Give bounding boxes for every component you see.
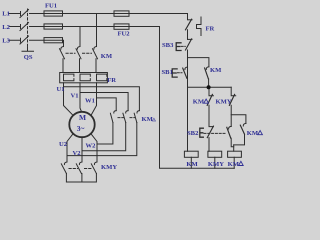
- svg-text:M: M: [79, 113, 86, 122]
- svg-text:L2: L2: [2, 24, 10, 31]
- svg-text:3~: 3~: [77, 124, 85, 133]
- svg-text:W2: W2: [86, 143, 97, 150]
- svg-text:FU2: FU2: [118, 30, 131, 37]
- svg-text:W1: W1: [85, 97, 95, 104]
- svg-text:KM: KM: [228, 161, 240, 168]
- svg-text:KMY: KMY: [216, 99, 232, 106]
- svg-text:V1: V1: [71, 93, 79, 100]
- svg-text:L1: L1: [2, 11, 10, 18]
- svg-text:KM: KM: [186, 161, 198, 168]
- svg-text:SB2: SB2: [187, 130, 199, 137]
- svg-text:SB3: SB3: [162, 42, 174, 49]
- svg-text:KMY: KMY: [101, 164, 117, 171]
- svg-text:FR: FR: [107, 77, 116, 84]
- svg-text:U1: U1: [57, 86, 65, 93]
- svg-text:FU1: FU1: [45, 3, 57, 10]
- svg-text:KMY: KMY: [208, 161, 224, 168]
- svg-text:U2: U2: [59, 141, 68, 148]
- svg-text:KM: KM: [210, 67, 222, 74]
- svg-text:QS: QS: [24, 54, 33, 61]
- svg-text:L3: L3: [2, 38, 10, 45]
- svg-text:KM: KM: [142, 116, 154, 123]
- svg-text:KM: KM: [193, 99, 205, 106]
- svg-text:V2: V2: [73, 150, 82, 157]
- svg-text:FR: FR: [206, 26, 215, 33]
- svg-text:KM: KM: [247, 130, 259, 137]
- svg-text:KM: KM: [101, 53, 113, 60]
- svg-text:SB1: SB1: [162, 69, 173, 76]
